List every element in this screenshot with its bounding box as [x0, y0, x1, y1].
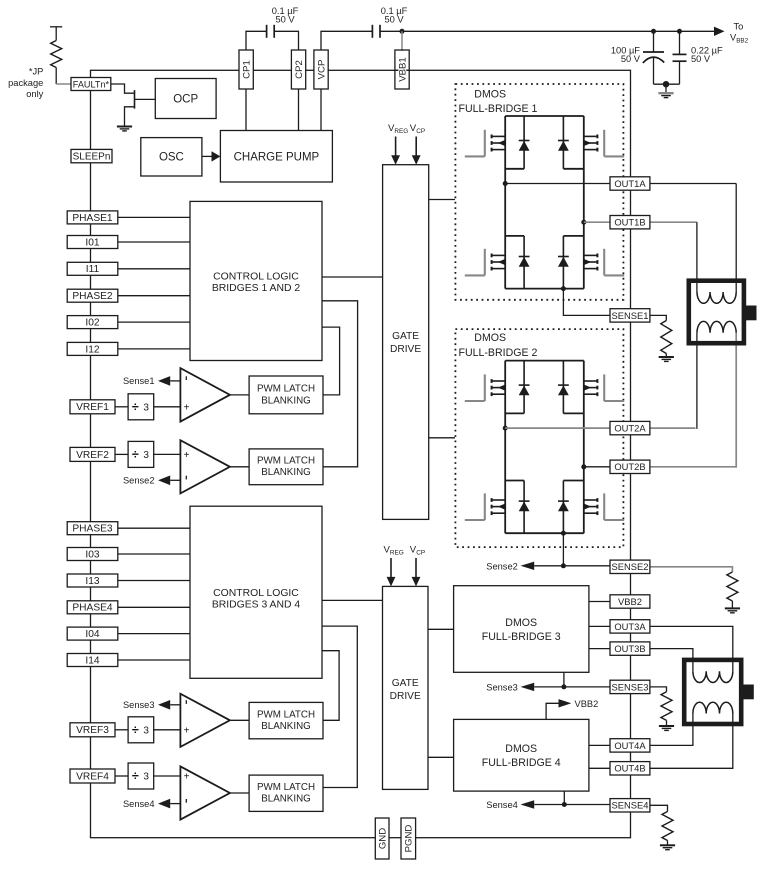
arrow Sense4 at bridge [521, 800, 535, 808]
wire OUT1B [584, 221, 610, 223]
node bridge 2 sense junction [561, 531, 566, 536]
wire gate drive 1 to bridge 2 [429, 437, 455, 439]
wire OUT2A [505, 427, 610, 429]
load 1 winding B coil [697, 321, 736, 332]
svg-text:I14: I14 [85, 655, 99, 666]
body diode low-side right of bridge 1 [558, 236, 569, 289]
capacitor C2 0.1uF plates [371, 25, 373, 38]
pin SENSE4 [610, 799, 650, 812]
pin I04 [67, 627, 118, 640]
wire I12 to control logic [118, 348, 190, 350]
pin VREF4 [70, 769, 115, 783]
ground at sense resistor 2 [725, 608, 740, 612]
wire bridge 1 to SENSE1 [563, 289, 610, 316]
block GATE DRIVE 2 [383, 586, 429, 789]
wire comparator 3 to PWM latch [230, 719, 249, 721]
pin OUT4B [610, 762, 650, 775]
pin OUT1B [610, 216, 650, 229]
svg-text:PHASE3: PHASE3 [72, 524, 113, 535]
svg-text:BLANKING: BLANKING [261, 794, 311, 805]
body diode high-side right of bridge 2 [558, 361, 569, 414]
svg-text:3: 3 [143, 772, 149, 783]
pin PHASE4 [67, 601, 118, 614]
svg-text:FULL-BRIDGE 2: FULL-BRIDGE 2 [459, 347, 538, 359]
node bridge 1 sense junction [561, 286, 566, 291]
svg-text:OUT2B: OUT2B [614, 461, 645, 472]
node Sense4 junction [562, 802, 567, 807]
svg-text:DRIVE: DRIVE [390, 344, 421, 355]
wire I03 to control logic [118, 553, 190, 555]
pin PHASE1 [67, 211, 118, 224]
svg-text:VREF1: VREF1 [76, 402, 109, 413]
wire bridge 4 VBB2 feed [546, 703, 558, 719]
op-amp comparator 2 [180, 440, 230, 493]
arrow VBB2 feed [559, 699, 572, 707]
wire top rail to VBB2 [402, 30, 721, 32]
wire resistor to FAULTn [56, 83, 71, 85]
svg-text:BLANKING: BLANKING [261, 721, 311, 732]
wire VBB1 stub [401, 31, 403, 51]
bridge 2 left trunk wire [504, 361, 506, 534]
wire CP2 to charge pump [298, 89, 300, 131]
dotted box DMOS FULL-BRIDGE 1 [455, 84, 623, 300]
wire I11 to control logic [118, 268, 190, 270]
pin VREF2 [70, 447, 115, 461]
svg-text:Sense1: Sense1 [123, 376, 155, 386]
wire gate drive 2 to bridge 4 [428, 756, 454, 758]
svg-text:OUT2A: OUT2A [614, 423, 646, 434]
svg-text:FULL-BRIDGE 3: FULL-BRIDGE 3 [482, 631, 561, 643]
svg-text:GATE: GATE [392, 678, 419, 689]
svg-text:OUT1A: OUT1A [614, 178, 646, 189]
block PWM LATCH BLANKING 1 [249, 376, 323, 414]
svg-text:÷: ÷ [132, 400, 139, 414]
bridge 2 high-side right source join wire [563, 412, 583, 414]
bridge 1 low-side right drain join wire [563, 235, 583, 237]
pin VBB1 [395, 50, 409, 89]
svg-text:Sense4: Sense4 [123, 799, 155, 809]
bridge 2 high-side left source join wire [505, 412, 524, 414]
wire rail through VBB1 [396, 69, 409, 71]
transistor low-side right of bridge 2 [584, 493, 624, 520]
ground at sense resistor 3 [659, 726, 674, 730]
svg-text:DMOS: DMOS [505, 743, 537, 755]
svg-text:GND: GND [378, 828, 389, 849]
capacitor C1 0.1uF wire left [246, 31, 267, 50]
pin I12 [67, 342, 118, 355]
wire OUT2B to load 1 [650, 466, 736, 468]
wire CP1 to charge pump [245, 89, 247, 131]
svg-text:÷: ÷ [132, 723, 139, 737]
pin OUT2A [610, 421, 650, 434]
svg-text:Sense3: Sense3 [123, 700, 155, 710]
svg-text:+: + [184, 450, 190, 461]
node VBB1 junction [400, 29, 405, 34]
svg-text:CHARGE PUMP: CHARGE PUMP [234, 151, 320, 163]
node OUT1B [581, 220, 586, 225]
transistor high-side left of bridge 1 [465, 130, 505, 157]
block CHARGE PUMP [220, 131, 332, 183]
svg-text:÷: ÷ [132, 769, 139, 783]
pin I14 [67, 654, 118, 667]
svg-text:VBB2: VBB2 [575, 699, 599, 709]
capacitor C2 0.1uF wire right [380, 30, 402, 32]
wire sense3 to SENSE3 pin [564, 686, 610, 688]
wire OUT1A to load 1 [650, 183, 736, 185]
wire OUT2B [584, 466, 610, 468]
wire sense4 to arrow [534, 804, 564, 806]
svg-text:BLANKING: BLANKING [261, 395, 311, 406]
op-amp comparator 1 [180, 368, 230, 422]
comparator 3 minus input tick [185, 700, 187, 704]
wire sense2 line to SENSE2 pin [563, 565, 610, 567]
pin GND [375, 818, 389, 859]
arrow OSC to charge pump [202, 155, 212, 157]
svg-text:PWM LATCH: PWM LATCH [257, 456, 315, 467]
block DMOS FULL-BRIDGE 3 [454, 586, 589, 673]
pin PHASE2 [67, 289, 118, 302]
svg-text:÷: ÷ [132, 447, 139, 461]
svg-text:BRIDGES 3 AND 4: BRIDGES 3 AND 4 [212, 599, 301, 610]
svg-text:VREF4: VREF4 [76, 771, 109, 782]
bridge 2 bottom rail (source) [505, 532, 584, 534]
svg-text:OUT4A: OUT4A [614, 740, 646, 751]
svg-text:50 V: 50 V [621, 54, 641, 64]
svg-text:3: 3 [143, 402, 149, 413]
node OUT1A [503, 181, 508, 186]
ground at sense resistor 4 [660, 845, 675, 849]
wire PHASE3 to control logic [118, 527, 190, 529]
resistor sense 2 [727, 572, 738, 601]
capacitor C1 0.1uF plates [266, 25, 268, 38]
pin PGND [401, 818, 416, 859]
svg-text:OUT4B: OUT4B [614, 763, 645, 774]
svg-text:VBB1: VBB1 [397, 57, 408, 82]
svg-text:SENSE2: SENSE2 [611, 561, 648, 572]
svg-text:+: + [184, 772, 190, 783]
wire OUT2A to load 1 [650, 427, 696, 429]
node Sense2 junction [561, 563, 566, 568]
wire sense arrow to comparator 3 [170, 704, 180, 706]
svg-text:OUT1B: OUT1B [614, 217, 645, 228]
arrow VCP into gate drive 1 [415, 137, 417, 157]
svg-text:DMOS: DMOS [474, 332, 506, 344]
wire control logic 3-4 to PWM latch 4 [322, 626, 357, 787]
pin CP1 [239, 50, 253, 89]
wire I13 to control logic [118, 580, 190, 582]
pin I11 [67, 262, 118, 275]
wire bridge 3 to OUT3B [589, 648, 610, 650]
svg-text:PHASE4: PHASE4 [72, 603, 113, 614]
arrow Sense2 at comparator [158, 476, 170, 486]
pin VCP [314, 50, 328, 89]
wire divider to comparator 1 [154, 406, 181, 408]
wire gate drive 1 to bridge 1 [429, 199, 455, 201]
bridge 1 top rail (VBB) [505, 115, 584, 117]
node 0.22uF junction [677, 29, 682, 34]
op-amp comparator 3 [180, 694, 230, 747]
transistor low-side right of bridge 1 [584, 249, 624, 276]
wire bridge 2 to sense line [562, 533, 564, 566]
wire VCP to charge pump [320, 89, 322, 131]
load 2 winding B coil [693, 702, 733, 713]
chip package outline [91, 70, 631, 837]
bridge 1 left trunk wire [504, 116, 506, 289]
pin SLEEPn [71, 149, 112, 162]
dotted box DMOS FULL-BRIDGE 2 [455, 329, 623, 547]
svg-text:3: 3 [143, 725, 149, 736]
svg-text:I11: I11 [86, 264, 100, 275]
pin I03 [67, 548, 118, 561]
pin VBB2 [610, 595, 650, 608]
wire OUT3B to load 2 [650, 649, 693, 672]
arrow Sense2 [521, 562, 535, 570]
arrow Sense3 [521, 683, 535, 691]
pin VREF1 [70, 400, 115, 414]
comparator 1 minus input tick [185, 376, 187, 380]
wire sense arrow to comparator 4 [170, 803, 180, 805]
svg-text:SENSE3: SENSE3 [611, 681, 648, 692]
svg-text:VREF3: VREF3 [76, 725, 109, 736]
pin SENSE2 [610, 560, 650, 573]
svg-text:OUT3A: OUT3A [614, 621, 646, 632]
block OSC [141, 138, 202, 176]
svg-text:I01: I01 [85, 237, 99, 248]
wire sense4 to SENSE4 pin [564, 804, 610, 806]
divider (divide by 3) for bridge 1 [128, 394, 154, 420]
svg-text:DMOS: DMOS [505, 617, 537, 629]
pin OUT1A [610, 177, 650, 190]
wire I02 to control logic [118, 321, 190, 323]
transistor low-side left of bridge 1 [465, 249, 505, 276]
wire sense arrow to comparator 1 [170, 380, 180, 382]
arrow VREG into gate drive 1 [395, 137, 397, 157]
bridge 1 right trunk wire [583, 116, 585, 289]
wire comparator 4 to PWM latch [230, 792, 249, 794]
resistor sense 1 [661, 321, 672, 354]
bridge 1 high-side right source join wire [563, 168, 583, 170]
divider (divide by 3) for bridge 3 [128, 717, 154, 743]
svg-text:PWM LATCH: PWM LATCH [257, 709, 315, 720]
svg-text:only: only [26, 89, 43, 99]
wire VREF2 to divider [115, 453, 128, 455]
svg-text:CP1: CP1 [242, 60, 253, 79]
body diode low-side right of bridge 2 [558, 481, 569, 534]
block PWM LATCH BLANKING 2 [249, 449, 323, 485]
svg-text:3: 3 [143, 450, 149, 461]
svg-text:50 V: 50 V [384, 15, 404, 25]
wire SENSE3 to resistor [650, 687, 667, 692]
body diode high-side right of bridge 1 [558, 116, 569, 169]
ground at sense resistor 1 [659, 357, 674, 361]
svg-text:+: + [184, 725, 190, 736]
svg-text:Sense4: Sense4 [486, 800, 518, 810]
wire control logic 3-4 to gate drive [322, 599, 383, 601]
svg-text:PWM LATCH: PWM LATCH [257, 384, 315, 395]
bridge 1 bottom rail (source) [505, 288, 584, 290]
wire control logic 3-4 to PWM latch 3 [322, 651, 339, 721]
bridge 2 low-side right drain join wire [563, 480, 583, 482]
bridge 1 high-side left source join wire [505, 168, 524, 170]
svg-text:*JP: *JP [29, 67, 43, 77]
node cap ground junction [663, 81, 669, 87]
block PWM LATCH BLANKING 4 [249, 775, 323, 811]
svg-text:To: To [734, 22, 744, 32]
wire control logic 1-2 to PWM latch 2 [322, 301, 358, 467]
pin CP2 [291, 50, 305, 89]
svg-text:package: package [8, 78, 43, 88]
pin PHASE3 [67, 522, 118, 535]
pin OUT4A [610, 739, 650, 752]
arrowhead To VBB2 [714, 27, 725, 36]
wire sense2 line to arrow [534, 565, 563, 567]
node OUT2A [503, 426, 508, 431]
wire transistor source to ground [125, 107, 135, 126]
wire FAULTn to transistor gate [111, 84, 135, 93]
resistor sense 3 [661, 692, 672, 721]
svg-text:I13: I13 [85, 576, 99, 587]
pin I01 [67, 236, 118, 249]
svg-text:Sense3: Sense3 [486, 683, 518, 693]
wire OUT4A to load 2 [650, 714, 693, 746]
svg-text:SLEEPn: SLEEPn [73, 152, 111, 163]
body diode low-side left of bridge 1 [519, 236, 530, 289]
wire bridge 4 to OUT4A [589, 744, 610, 746]
load 2 motor shaft tab [741, 685, 754, 700]
svg-text:SENSE4: SENSE4 [611, 800, 648, 811]
node OUT2B [581, 464, 586, 469]
svg-text:OUT3B: OUT3B [614, 643, 645, 654]
svg-text:SENSE1: SENSE1 [611, 310, 648, 321]
pin FAULTn* [71, 78, 111, 91]
svg-text:VCP: VCP [316, 60, 327, 80]
svg-text:I04: I04 [85, 629, 99, 640]
body diode high-side left of bridge 2 [519, 361, 530, 414]
block OCP [155, 79, 216, 119]
pin OUT3B [610, 642, 650, 655]
wire PHASE4 to control logic [118, 606, 190, 608]
svg-text:Sense2: Sense2 [486, 562, 518, 572]
wire control logic 1-2 to PWM latch 1 [322, 327, 340, 395]
svg-text:+: + [184, 402, 190, 413]
wire I04 to control logic [118, 633, 190, 635]
svg-text:OSC: OSC [159, 152, 184, 164]
wire divider to comparator 2 [154, 453, 181, 455]
svg-text:FULL-BRIDGE 4: FULL-BRIDGE 4 [482, 757, 561, 769]
pin SENSE1 [610, 309, 650, 322]
wire OUT1A [505, 183, 610, 185]
block GATE DRIVE 1 [383, 165, 429, 520]
transistor low-side left of bridge 2 [465, 493, 505, 520]
wire transistor to OCP [135, 98, 156, 100]
arrow Sense3 at comparator [158, 700, 170, 710]
wire OUT1B to load 1 [650, 221, 697, 223]
resistor sense 4 [662, 812, 673, 841]
svg-text:GATE: GATE [392, 331, 419, 342]
wire gate drive 2 to bridge 3 [428, 628, 454, 630]
arrow Sense1 at comparator [158, 376, 170, 386]
wire SENSE2 to resistor [650, 567, 733, 572]
node Sense3 junction [561, 684, 566, 689]
body diode high-side left of bridge 1 [519, 116, 530, 169]
svg-text:50 V: 50 V [275, 15, 295, 25]
load 2 motor winding box [684, 660, 741, 724]
wire bridge 4 to OUT4B [589, 767, 610, 769]
wire I14 to control logic [118, 659, 190, 661]
svg-text:PWM LATCH: PWM LATCH [257, 782, 315, 793]
wire VREF1 to divider [115, 406, 128, 408]
comparator 2 minus input tick [185, 476, 187, 480]
wire VREF4 to divider [115, 775, 128, 777]
bridge 2 right trunk wire [583, 361, 585, 534]
body diode low-side left of bridge 2 [519, 481, 530, 534]
ground at supply caps [658, 93, 673, 97]
wire I01 to control logic [118, 241, 190, 243]
svg-text:OCP: OCP [173, 94, 198, 106]
svg-text:BLANKING: BLANKING [261, 467, 311, 478]
load 2 winding A coil [693, 671, 733, 682]
ground at Q1 source [117, 127, 132, 131]
wire SENSE4 to resistor [650, 805, 668, 811]
svg-text:BRIDGES 1 AND 2: BRIDGES 1 AND 2 [212, 283, 301, 294]
pin OUT2B [610, 460, 650, 473]
bridge 2 low-side left drain join wire [505, 480, 524, 482]
capacitor C4 0.22uF [679, 31, 681, 54]
svg-text:VREF2: VREF2 [76, 450, 109, 461]
load 1 motor winding box [689, 281, 744, 344]
svg-text:I03: I03 [85, 549, 99, 560]
arrow Sense4 at comparator [158, 799, 170, 809]
wire sense3 to arrow [534, 686, 564, 688]
svg-text:Sense2: Sense2 [123, 476, 155, 486]
svg-text:CONTROL LOGIC: CONTROL LOGIC [213, 272, 299, 283]
op-amp comparator 4 [180, 766, 230, 819]
wire caps to ground [654, 83, 680, 85]
svg-text:VBB2: VBB2 [618, 596, 642, 607]
wire comparator 2 to PWM latch [230, 466, 249, 468]
arrow VREG into gate drive 2 [390, 558, 392, 578]
pin SENSE3 [610, 680, 650, 693]
divider (divide by 3) for bridge 4 [128, 763, 154, 789]
arrow VCP into gate drive 2 [415, 558, 417, 578]
svg-text:FULL-BRIDGE 1: FULL-BRIDGE 1 [459, 103, 538, 115]
pin VREF3 [70, 723, 115, 737]
wire bridge 3 to sense3 [563, 672, 565, 687]
svg-text:FAULTn*: FAULTn* [73, 79, 110, 89]
pin OUT3A [610, 620, 650, 633]
wire bridge 3 to OUT3A [589, 625, 610, 627]
wire sense arrow to comparator 2 [170, 479, 180, 481]
resistor pull-up (JP package) [55, 27, 57, 41]
bridge 1 low-side left drain join wire [505, 235, 524, 237]
pin I13 [67, 574, 118, 587]
wire comparator 1 to PWM latch [230, 394, 249, 396]
comparator 4 minus input tick [185, 799, 187, 803]
divider (divide by 3) for bridge 2 [128, 441, 154, 467]
block CONTROL LOGIC BRIDGES 1 AND 2 [190, 201, 322, 360]
wire bridge 4 to sense4 [563, 791, 565, 804]
wire divider to comparator 4 [154, 775, 181, 777]
bridge 2 top rail (VBB) [505, 360, 584, 362]
transistor high-side left of bridge 2 [465, 374, 505, 401]
wire bridge 3 to VBB2 pin [589, 601, 610, 603]
transistor high-side right of bridge 2 [584, 374, 624, 401]
wire OUT3A to load 2 [650, 626, 733, 671]
capacitor C2 0.1uF wire left [321, 31, 372, 50]
svg-text:PHASE1: PHASE1 [72, 213, 113, 224]
block DMOS FULL-BRIDGE 4 [454, 719, 589, 791]
load 1 winding A coil [697, 292, 736, 303]
